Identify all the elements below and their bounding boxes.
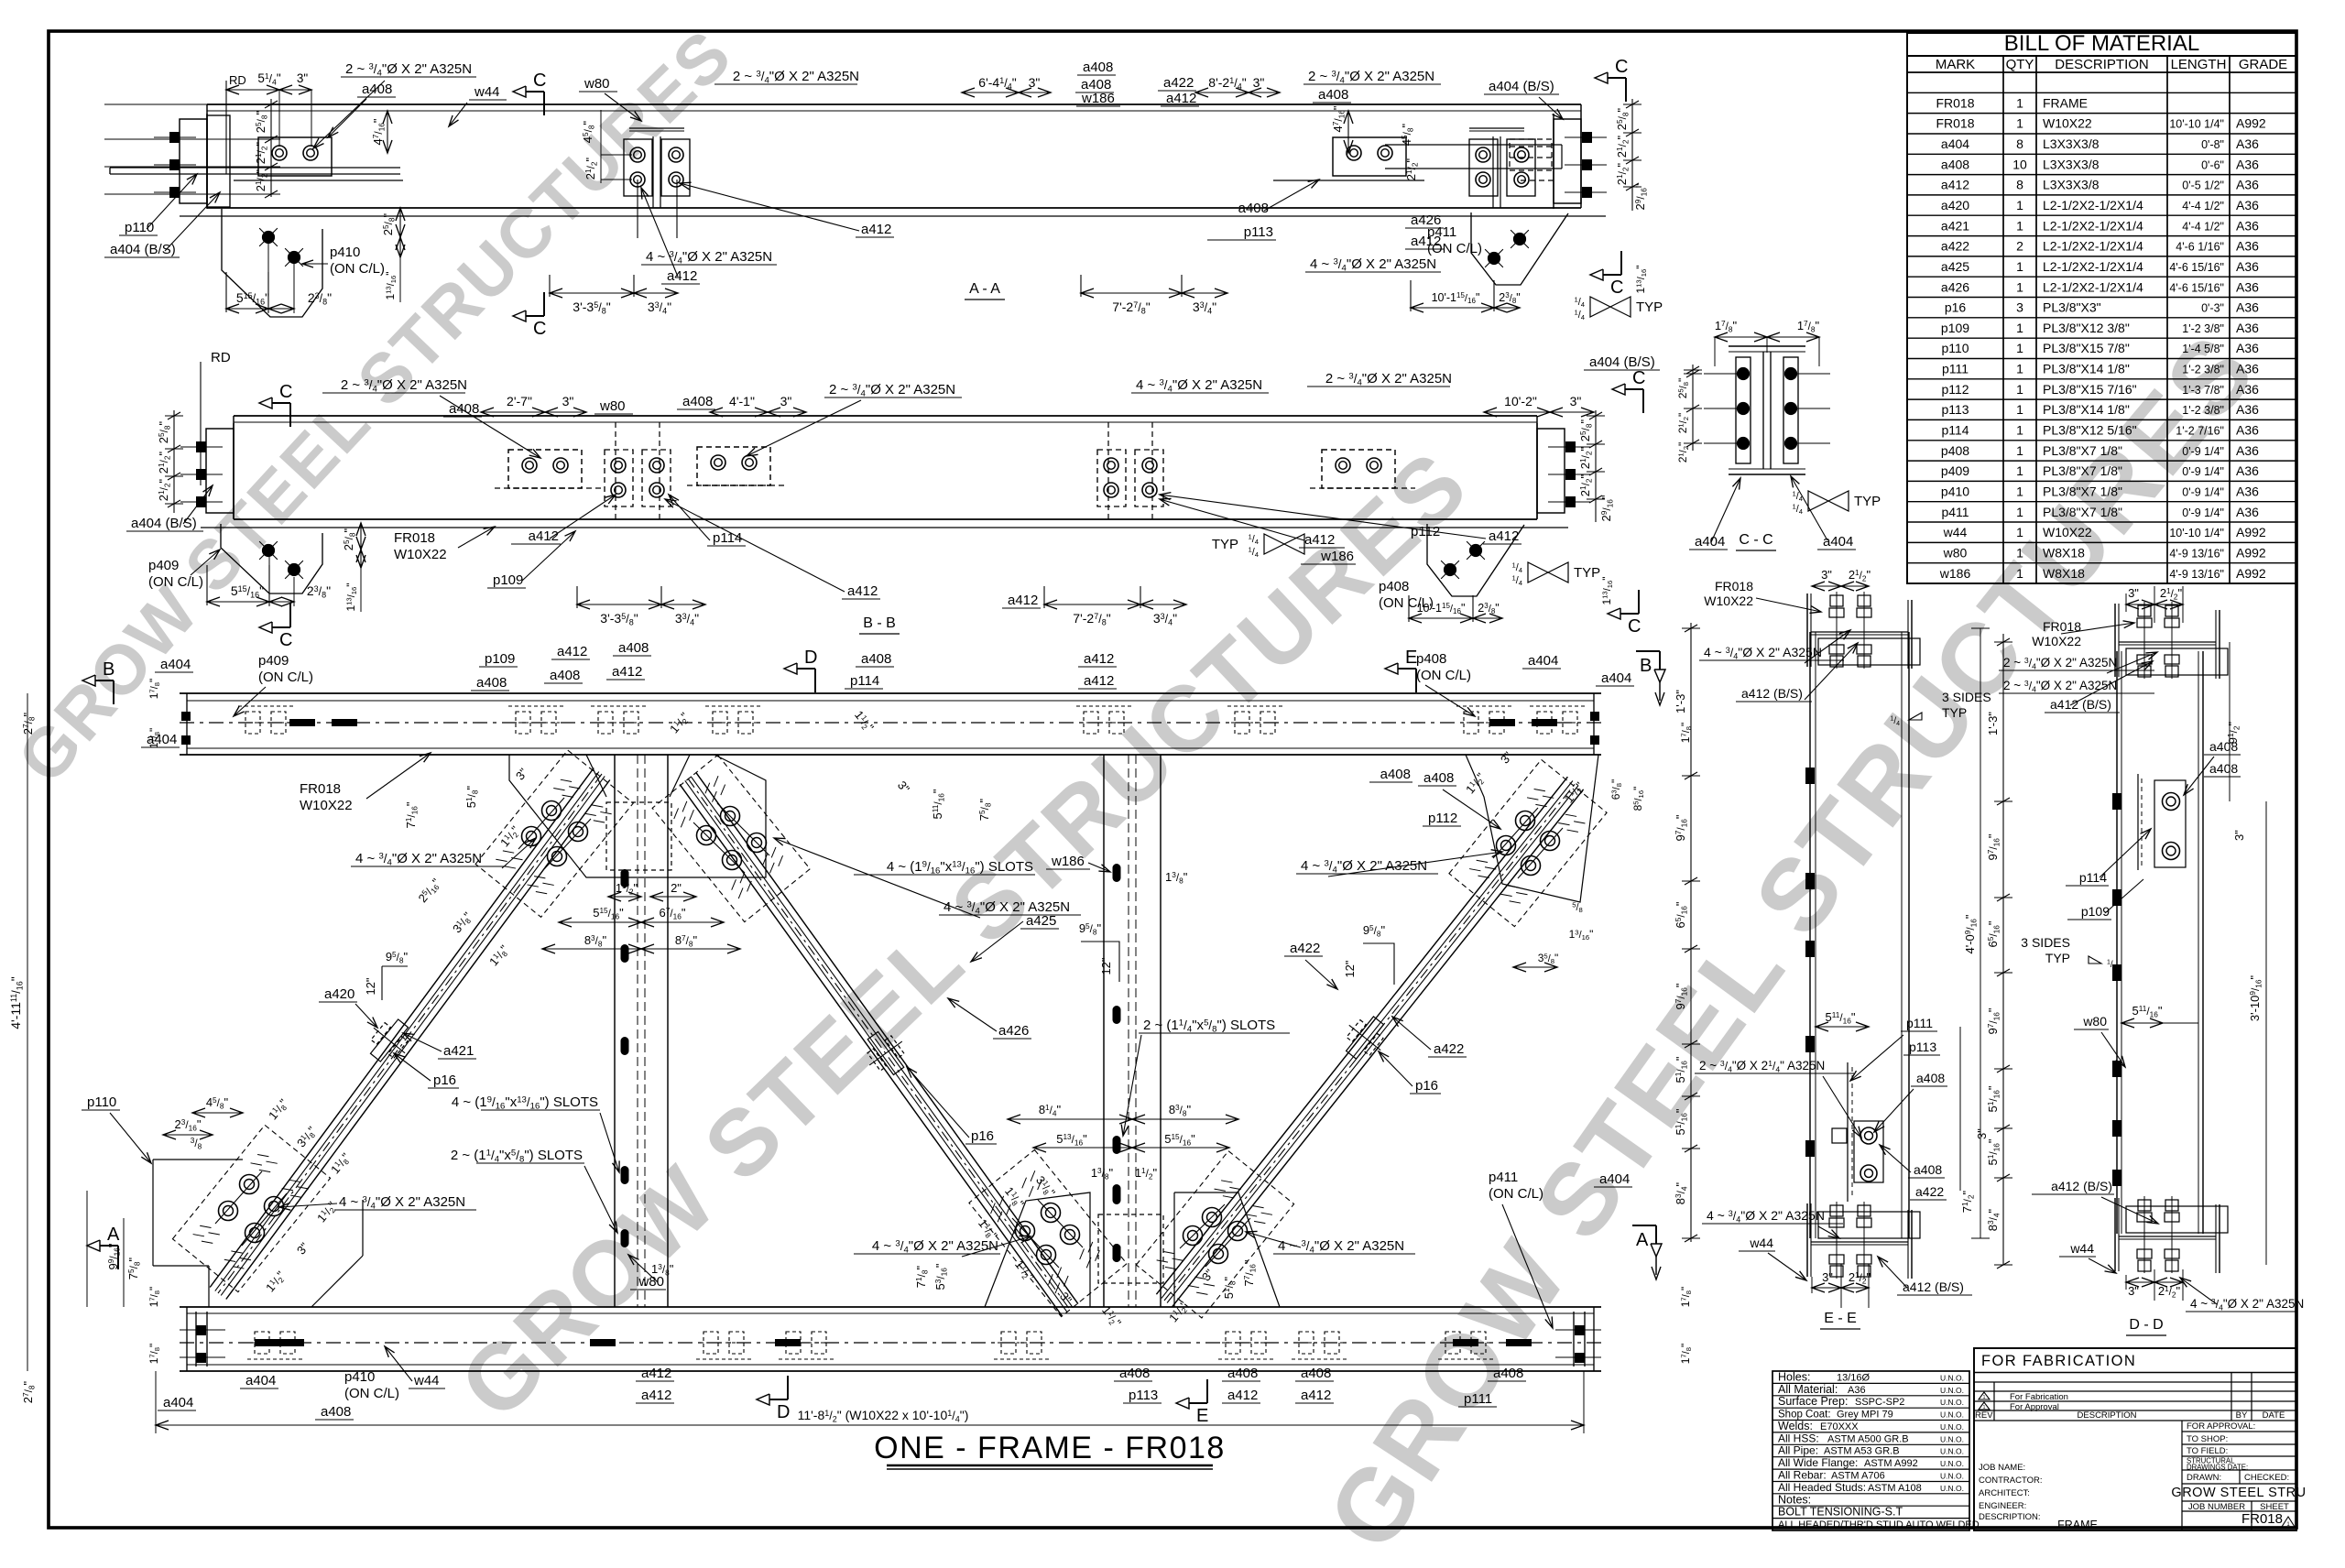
svg-text:w186: w186 xyxy=(1051,854,1085,869)
svg-text:a422: a422 xyxy=(1163,75,1194,91)
svg-text:1: 1 xyxy=(2016,116,2023,131)
svg-text:83/8": 83/8" xyxy=(584,933,607,948)
svg-text:E - E: E - E xyxy=(1824,1311,1857,1326)
gusset p409 below beam left (B-B) xyxy=(221,524,322,593)
svg-text:Surface Prep:: Surface Prep: xyxy=(1778,1395,1848,1408)
svg-text:17/8": 17/8" xyxy=(147,728,161,749)
svg-text:17/8": 17/8" xyxy=(1797,319,1820,333)
svg-text:A992: A992 xyxy=(2236,545,2266,560)
svg-text:p110: p110 xyxy=(125,220,154,235)
svg-text:GRADE: GRADE xyxy=(2239,57,2287,72)
svg-text:p110: p110 xyxy=(1941,341,1969,355)
svg-text:JOB NAME:: JOB NAME: xyxy=(1979,1463,2025,1473)
svg-text:L2-1/2X2-1/2X1/4: L2-1/2X2-1/2X1/4 xyxy=(2043,218,2143,233)
svg-text:ALL HEADED/THR'D STUD AUTO WEL: ALL HEADED/THR'D STUD AUTO WELDED xyxy=(1778,1519,1980,1530)
w80 column profile (E-E) xyxy=(1805,632,1909,1238)
svg-text:0'-9 1/4": 0'-9 1/4" xyxy=(2182,506,2224,519)
mid connection p111 p113 a408 a422 (E-E) xyxy=(1832,1062,1883,1202)
svg-text:PL3/8"X7 1/8": PL3/8"X7 1/8" xyxy=(2043,505,2122,519)
svg-text:W10X22: W10X22 xyxy=(1704,593,1753,608)
svg-text:0'-8": 0'-8" xyxy=(2201,138,2224,151)
angle a422 dashed (A-A right) xyxy=(1510,139,1554,180)
svg-text:FR018: FR018 xyxy=(1715,579,1753,593)
svg-text:A36: A36 xyxy=(2236,341,2259,355)
svg-text:A36: A36 xyxy=(2236,178,2259,192)
svg-text:515/16": 515/16" xyxy=(236,290,269,307)
svg-text:1: 1 xyxy=(2016,505,2023,519)
svg-text:113/16": 113/16" xyxy=(344,583,358,611)
svg-text:4 ~ 3/4"Ø X 2" A325N: 4 ~ 3/4"Ø X 2" A325N xyxy=(1301,858,1427,876)
svg-text:51/16": 51/16" xyxy=(1674,1056,1688,1083)
svg-text:PL3/8"X15 7/16": PL3/8"X15 7/16" xyxy=(2043,382,2137,397)
svg-text:3": 3" xyxy=(1570,394,1582,408)
svg-text:13/8": 13/8" xyxy=(651,1262,674,1277)
svg-text:L2-1/2X2-1/2X1/4: L2-1/2X2-1/2X1/4 xyxy=(2043,279,2143,294)
svg-text:U.N.O.: U.N.O. xyxy=(1940,1373,1964,1382)
svg-text:1'-2 3/8": 1'-2 3/8" xyxy=(2182,322,2224,335)
svg-text:a422: a422 xyxy=(1290,941,1320,956)
svg-text:ASTM A992: ASTM A992 xyxy=(1864,1458,1918,1469)
svg-text:21/2": 21/2" xyxy=(1404,158,1419,180)
svg-text:21/2": 21/2" xyxy=(1578,446,1593,469)
svg-text:p111: p111 xyxy=(1464,1391,1492,1407)
svg-text:p112: p112 xyxy=(1411,524,1440,539)
svg-text:4'-6 15/16": 4'-6 15/16" xyxy=(2169,261,2224,274)
svg-text:a421: a421 xyxy=(443,1043,474,1059)
svg-text:27/8": 27/8" xyxy=(21,712,36,735)
svg-text:L3X3X3/8: L3X3X3/8 xyxy=(2043,178,2100,192)
svg-text:1: 1 xyxy=(2016,362,2023,376)
E-E dimensions and labels xyxy=(1674,568,1991,1329)
svg-text:U.N.O.: U.N.O. xyxy=(1940,1459,1964,1468)
svg-text:a412: a412 xyxy=(1304,532,1335,548)
svg-text:12": 12" xyxy=(364,977,377,995)
svg-text:a408: a408 xyxy=(1318,87,1348,103)
svg-text:w80: w80 xyxy=(2082,1014,2107,1029)
svg-text:95/8": 95/8" xyxy=(1079,921,1102,936)
bill of material table xyxy=(1907,31,2296,583)
svg-text:63/8": 63/8" xyxy=(1609,779,1623,800)
svg-text:p410: p410 xyxy=(330,245,360,260)
svg-text:a408: a408 xyxy=(449,401,479,417)
svg-text:a420: a420 xyxy=(324,986,354,1002)
svg-text:L2-1/2X2-1/2X1/4: L2-1/2X2-1/2X1/4 xyxy=(2043,239,2143,254)
svg-text:w80: w80 xyxy=(599,398,626,414)
svg-text:a412: a412 xyxy=(847,583,878,599)
svg-text:4 ~ 3/4"Ø X 2" A325N: 4 ~ 3/4"Ø X 2" A325N xyxy=(1707,1208,1825,1225)
svg-text:a412: a412 xyxy=(612,664,642,680)
svg-text:a412: a412 xyxy=(1941,178,1969,192)
section B-B view xyxy=(126,350,1660,650)
svg-text:A36: A36 xyxy=(2236,382,2259,397)
svg-text:DRAWINGS DATE:: DRAWINGS DATE: xyxy=(2187,1464,2248,1472)
svg-text:45/8": 45/8" xyxy=(581,120,595,143)
svg-text:33/4": 33/4" xyxy=(675,611,699,627)
svg-text:4'-1": 4'-1" xyxy=(729,394,755,408)
bottom beam w44 xyxy=(180,1307,1601,1371)
svg-text:1: 1 xyxy=(2016,485,2023,499)
bottom beam w44 cross section (D-D) xyxy=(2115,1196,2228,1273)
svg-text:13/16": 13/16" xyxy=(1569,928,1594,942)
svg-text:p409: p409 xyxy=(258,653,289,669)
svg-text:0'-9 1/4": 0'-9 1/4" xyxy=(2182,445,2224,458)
svg-text:23/8": 23/8" xyxy=(307,583,331,600)
section C-C detail xyxy=(1676,319,1881,550)
svg-text:4'-6 15/16": 4'-6 15/16" xyxy=(2169,281,2224,294)
diagonal brace a420 a421 xyxy=(210,768,610,1300)
svg-text:TYP: TYP xyxy=(1574,565,1600,581)
svg-text:TYP: TYP xyxy=(1636,299,1663,315)
C-C dimensions and labels xyxy=(1676,319,1881,550)
svg-text:For Fabrication: For Fabrication xyxy=(2010,1392,2068,1402)
svg-text:DRAWN:: DRAWN: xyxy=(2187,1473,2221,1483)
hidden angle a408 2 bolts right of w80 (B-B) xyxy=(687,447,788,485)
svg-text:w44: w44 xyxy=(1749,1236,1773,1250)
svg-text:23/8": 23/8" xyxy=(308,290,332,307)
svg-text:W10X22: W10X22 xyxy=(394,547,447,562)
svg-text:w44: w44 xyxy=(474,84,500,100)
w80 column profile (D-D) xyxy=(2112,651,2203,1234)
svg-text:BOLT TENSIONING-S.T: BOLT TENSIONING-S.T xyxy=(1778,1506,1903,1519)
section D-D view xyxy=(1986,586,2304,1335)
svg-text:TYP: TYP xyxy=(1942,705,1967,720)
svg-text:DESCRIPTION: DESCRIPTION xyxy=(2055,57,2149,72)
svg-text:a408: a408 xyxy=(1227,1366,1258,1381)
svg-text:0'-5 1/2": 0'-5 1/2" xyxy=(2182,180,2224,192)
svg-text:511/16": 511/16" xyxy=(1826,1010,1856,1025)
svg-text:25/8": 25/8" xyxy=(254,110,268,133)
svg-text:0'-9 1/4": 0'-9 1/4" xyxy=(2182,486,2224,499)
svg-text:1: 1 xyxy=(2016,198,2023,212)
svg-text:3": 3" xyxy=(780,394,792,408)
svg-text:4'-9 13/16": 4'-9 13/16" xyxy=(2169,568,2224,581)
w186 stub and a426 a412 clips (A-A) xyxy=(1469,128,1535,208)
svg-text:SSPC-SP2: SSPC-SP2 xyxy=(1855,1397,1904,1408)
svg-text:11/2": 11/2" xyxy=(1135,1166,1158,1181)
svg-text:4'-9 13/16": 4'-9 13/16" xyxy=(2169,547,2224,560)
svg-text:a408: a408 xyxy=(1941,157,1969,171)
svg-text:p410: p410 xyxy=(344,1369,375,1385)
svg-text:FOR APPROVAL:: FOR APPROVAL: xyxy=(2187,1421,2255,1432)
svg-text:511/16": 511/16" xyxy=(931,789,945,819)
svg-text:p16: p16 xyxy=(1945,300,1967,315)
svg-text:67/16": 67/16" xyxy=(660,906,686,920)
svg-text:A36: A36 xyxy=(2236,157,2259,171)
svg-text:DESCRIPTION:: DESCRIPTION: xyxy=(1979,1512,2041,1522)
svg-text:A36: A36 xyxy=(2236,423,2259,438)
svg-text:RD: RD xyxy=(211,350,231,365)
svg-text:a404 (B/S): a404 (B/S) xyxy=(131,516,197,531)
svg-text:D: D xyxy=(804,648,817,668)
svg-text:a425: a425 xyxy=(1026,913,1056,929)
svg-text:4 ~ 3/4"Ø X 2" A325N: 4 ~ 3/4"Ø X 2" A325N xyxy=(1704,645,1822,661)
svg-text:A36: A36 xyxy=(2236,136,2259,151)
section C markers (B-B) xyxy=(259,368,1645,650)
svg-text:MARK: MARK xyxy=(1936,57,1975,72)
svg-text:(ON C/L): (ON C/L) xyxy=(258,670,313,685)
svg-text:p409: p409 xyxy=(148,558,179,573)
angle a408 with 2 bolts (A-A left) xyxy=(234,137,403,180)
diagonal brace a425 a426 xyxy=(680,773,1078,1316)
svg-text:515/16": 515/16" xyxy=(593,906,624,920)
svg-text:4 ~ 3/4"Ø X 2" A325N: 4 ~ 3/4"Ø X 2" A325N xyxy=(2190,1297,2304,1312)
svg-text:RD: RD xyxy=(229,73,246,87)
svg-text:2 ~ (11/4"x5/8") SLOTS: 2 ~ (11/4"x5/8") SLOTS xyxy=(451,1148,583,1165)
svg-text:21/2": 21/2" xyxy=(2160,586,2183,601)
svg-text:23/8": 23/8" xyxy=(1499,291,1520,305)
svg-text:4 ~ 3/4"Ø X 2" A325N: 4 ~ 3/4"Ø X 2" A325N xyxy=(1136,377,1262,395)
right vertical member w186 xyxy=(1104,755,1161,1307)
svg-text:TYP: TYP xyxy=(1212,537,1238,552)
svg-text:2": 2" xyxy=(671,881,682,895)
svg-text:w186: w186 xyxy=(1320,549,1354,564)
svg-text:10'-10 1/4": 10'-10 1/4" xyxy=(2169,527,2224,539)
svg-text:a412: a412 xyxy=(667,268,697,284)
svg-text:4'-6 1/16": 4'-6 1/16" xyxy=(2176,241,2224,254)
svg-text:17/8": 17/8" xyxy=(1679,1344,1693,1365)
svg-text:21/2": 21/2" xyxy=(1676,442,1690,463)
svg-text:21/2": 21/2" xyxy=(254,141,268,164)
svg-text:a404: a404 xyxy=(1599,1171,1630,1187)
top beam clip plates a408 a412 (dashed) xyxy=(238,706,1585,734)
svg-text:21/2": 21/2" xyxy=(584,157,598,180)
svg-text:25/8": 25/8" xyxy=(342,528,356,550)
svg-text:a421: a421 xyxy=(1941,218,1969,233)
svg-text:A36: A36 xyxy=(2236,362,2259,376)
svg-text:21/2": 21/2" xyxy=(1615,162,1630,185)
svg-text:81/4": 81/4" xyxy=(1039,1103,1062,1117)
svg-text:1'-3 7/8": 1'-3 7/8" xyxy=(2182,384,2224,397)
svg-text:C: C xyxy=(533,71,546,91)
svg-text:a422: a422 xyxy=(1434,1041,1464,1057)
svg-text:a408: a408 xyxy=(321,1404,351,1420)
bottom left gusset p110 xyxy=(153,1125,363,1307)
svg-text:a412: a412 xyxy=(1301,1388,1331,1403)
svg-text:p408: p408 xyxy=(1379,579,1409,594)
svg-text:4 ~ 3/4"Ø X 2" A325N: 4 ~ 3/4"Ø X 2" A325N xyxy=(1310,256,1436,274)
svg-text:p113: p113 xyxy=(1129,1388,1158,1403)
gusset p408 below beam right (B-B) xyxy=(1427,524,1524,596)
svg-text:4'-4 1/2": 4'-4 1/2" xyxy=(2182,200,2224,212)
svg-text:TYP: TYP xyxy=(2045,951,2070,965)
drawing title ONE - FRAME - FR018 xyxy=(874,1431,1226,1469)
svg-text:1: 1 xyxy=(2016,259,2023,274)
svg-text:BY: BY xyxy=(2236,1410,2248,1421)
svg-text:FRAME: FRAME xyxy=(2043,95,2088,110)
svg-text:51/16": 51/16" xyxy=(1986,1138,2001,1165)
svg-text:PL3/8"X14 1/8": PL3/8"X14 1/8" xyxy=(2043,362,2130,376)
svg-text:w80: w80 xyxy=(584,76,610,92)
svg-text:D - D: D - D xyxy=(2129,1317,2163,1333)
svg-text:a408: a408 xyxy=(1916,1071,1945,1085)
svg-text:a412: a412 xyxy=(1084,673,1114,689)
svg-text:1: 1 xyxy=(2016,341,2023,355)
svg-text:W10X22: W10X22 xyxy=(300,798,353,813)
svg-text:TO FIELD:: TO FIELD: xyxy=(2187,1446,2228,1456)
svg-text:For Approval: For Approval xyxy=(2010,1402,2059,1412)
svg-text:21/2": 21/2" xyxy=(157,478,171,501)
svg-text:1: 1 xyxy=(1983,1395,1986,1400)
svg-text:Notes:: Notes: xyxy=(1778,1493,1811,1506)
svg-text:GROW STEEL STRU: GROW STEEL STRU xyxy=(2171,1486,2306,1500)
svg-text:E: E xyxy=(1196,1406,1208,1426)
svg-text:21/2": 21/2" xyxy=(1849,1270,1871,1285)
svg-text:W10X22: W10X22 xyxy=(2043,525,2092,539)
svg-text:3": 3" xyxy=(562,394,574,408)
svg-text:All Headed Studs:: All Headed Studs: xyxy=(1778,1481,1866,1494)
svg-text:17/8": 17/8" xyxy=(147,1344,161,1365)
svg-text:a404: a404 xyxy=(160,657,191,672)
svg-text:a412 (B/S): a412 (B/S) xyxy=(1741,686,1803,701)
D-D dimensions and labels xyxy=(1986,586,2304,1335)
svg-text:21/2": 21/2" xyxy=(1578,474,1593,496)
svg-text:LENGTH: LENGTH xyxy=(2171,57,2227,72)
svg-text:a408: a408 xyxy=(682,394,713,409)
svg-text:FR018: FR018 xyxy=(1936,95,1974,110)
svg-text:2 ~ 3/4"Ø X 21/4" A325N: 2 ~ 3/4"Ø X 21/4" A325N xyxy=(1699,1059,1825,1073)
left vertical member w80 xyxy=(615,755,668,1307)
svg-text:C: C xyxy=(279,382,292,402)
svg-text:1: 1 xyxy=(2016,279,2023,294)
title block xyxy=(1974,1348,2307,1531)
svg-text:p408: p408 xyxy=(1416,651,1446,667)
svg-text:17/8": 17/8" xyxy=(147,679,161,700)
bottom beam clip plates (dashed) xyxy=(247,1332,1493,1359)
svg-text:3": 3" xyxy=(1822,1270,1833,1284)
svg-text:10'-2": 10'-2" xyxy=(1504,394,1537,408)
svg-text:2 ~ 3/4"Ø X 2" A325N: 2 ~ 3/4"Ø X 2" A325N xyxy=(1325,371,1452,388)
svg-text:PL3/8"X15 7/8": PL3/8"X15 7/8" xyxy=(2043,341,2130,355)
svg-text:97/16": 97/16" xyxy=(1674,983,1688,1009)
svg-text:U.N.O.: U.N.O. xyxy=(1940,1410,1964,1420)
svg-text:97/16": 97/16" xyxy=(1674,814,1688,841)
svg-text:17/8": 17/8" xyxy=(1679,1287,1693,1308)
svg-text:p16: p16 xyxy=(1415,1078,1438,1094)
svg-text:a404 (B/S): a404 (B/S) xyxy=(1589,354,1655,370)
svg-text:11'-81/2" (W10X22 x 10'-101/4": 11'-81/2" (W10X22 x 10'-101/4") xyxy=(798,1408,969,1424)
svg-text:a412: a412 xyxy=(1489,528,1519,544)
svg-text:FR018: FR018 xyxy=(1936,116,1974,131)
svg-text:p114: p114 xyxy=(1941,423,1969,438)
diagonal brace a422 xyxy=(1156,777,1583,1307)
svg-text:JOB NUMBER: JOB NUMBER xyxy=(2188,1502,2245,1512)
svg-text:71/8": 71/8" xyxy=(914,1265,929,1288)
a408 clip with 2 bolts (D-D) xyxy=(2138,774,2186,870)
left end plate p110 and angle a404 (A-A) xyxy=(110,114,400,209)
svg-text:2 ~ (11/4"x5/8") SLOTS: 2 ~ (11/4"x5/8") SLOTS xyxy=(1143,1018,1275,1035)
svg-text:13/8": 13/8" xyxy=(1165,870,1188,885)
svg-text:1: 1 xyxy=(2016,382,2023,397)
svg-text:a408: a408 xyxy=(1119,1366,1150,1381)
svg-text:a408: a408 xyxy=(1914,1162,1942,1177)
frame section markers xyxy=(82,648,1665,1426)
svg-text:95/8": 95/8" xyxy=(386,950,409,964)
general notes table xyxy=(1772,1370,1980,1530)
svg-text:U.N.O.: U.N.O. xyxy=(1940,1447,1964,1456)
svg-text:a404: a404 xyxy=(163,1395,193,1410)
svg-text:p409: p409 xyxy=(1941,463,1969,478)
svg-text:2 ~ 3/4"Ø X 2" A325N: 2 ~ 3/4"Ø X 2" A325N xyxy=(1308,69,1434,86)
svg-text:25/8": 25/8" xyxy=(1615,107,1630,130)
svg-text:65/16": 65/16" xyxy=(1986,920,2001,947)
svg-text:1'-3": 1'-3" xyxy=(1986,712,2000,735)
svg-text:a404 (B/S): a404 (B/S) xyxy=(1489,79,1554,94)
svg-text:3": 3" xyxy=(1253,75,1265,90)
svg-text:a412: a412 xyxy=(1008,593,1038,608)
svg-text:25/8": 25/8" xyxy=(1578,419,1593,441)
top center gusset p109 p114 and bolts xyxy=(475,750,810,922)
svg-text:23/8": 23/8" xyxy=(1478,602,1499,615)
svg-text:a408: a408 xyxy=(1083,60,1113,75)
svg-text:A36: A36 xyxy=(2236,402,2259,417)
svg-text:L2-1/2X2-1/2X1/4: L2-1/2X2-1/2X1/4 xyxy=(2043,259,2143,274)
svg-text:p113: p113 xyxy=(1941,402,1969,417)
svg-text:a408: a408 xyxy=(476,675,507,691)
svg-text:a408: a408 xyxy=(1380,767,1411,782)
svg-text:C: C xyxy=(1615,57,1628,77)
bottom beam w44 cross section (E-E) xyxy=(1807,1202,1920,1279)
svg-text:A36: A36 xyxy=(2236,485,2259,499)
svg-text:A36: A36 xyxy=(2236,300,2259,315)
svg-text:C: C xyxy=(1610,278,1623,298)
svg-text:p113: p113 xyxy=(1244,224,1273,240)
svg-text:A36: A36 xyxy=(1848,1385,1866,1396)
svg-text:51/16": 51/16" xyxy=(1674,1108,1688,1135)
svg-text:FRAME: FRAME xyxy=(2057,1519,2098,1531)
svg-text:ASTM A706: ASTM A706 xyxy=(1831,1471,1885,1482)
svg-text:A36: A36 xyxy=(2236,259,2259,274)
svg-text:PL3/8"X12 5/16": PL3/8"X12 5/16" xyxy=(2043,423,2137,438)
svg-text:3 SIDES: 3 SIDES xyxy=(1942,690,1991,704)
svg-text:3: 3 xyxy=(2016,300,2023,315)
svg-text:23/16": 23/16" xyxy=(175,1117,202,1132)
splice plate p16 on a420 xyxy=(360,1011,419,1071)
svg-text:51/16": 51/16" xyxy=(1986,1085,2001,1112)
svg-text:(ON C/L): (ON C/L) xyxy=(148,574,203,590)
svg-text:a408: a408 xyxy=(1493,1366,1523,1381)
svg-text:w44: w44 xyxy=(1943,525,1968,539)
svg-text:53/16": 53/16" xyxy=(933,1263,948,1290)
gusset p410 below beam (A-A) xyxy=(222,209,322,317)
svg-text:p111: p111 xyxy=(1906,1016,1933,1030)
svg-text:513/16": 513/16" xyxy=(1056,1132,1087,1147)
svg-text:515/16": 515/16" xyxy=(231,583,264,600)
svg-text:FR018: FR018 xyxy=(2241,1511,2283,1527)
svg-text:p408: p408 xyxy=(1941,443,1969,458)
svg-text:2'-7": 2'-7" xyxy=(507,394,532,408)
svg-text:U.N.O.: U.N.O. xyxy=(1940,1398,1964,1407)
svg-text:(ON C/L): (ON C/L) xyxy=(1489,1186,1543,1202)
section C markers (A-A) xyxy=(513,57,1628,339)
svg-text:p410: p410 xyxy=(1941,485,1969,499)
svg-text:BILL OF MATERIAL: BILL OF MATERIAL xyxy=(2004,31,2199,56)
top beam FR018 cross section (D-D) xyxy=(2115,602,2228,679)
svg-text:A36: A36 xyxy=(2236,321,2259,335)
svg-text:FOR FABRICATION: FOR FABRICATION xyxy=(1981,1353,2136,1369)
svg-text:3 SIDES: 3 SIDES xyxy=(2021,935,2070,950)
svg-text:W8X18: W8X18 xyxy=(2043,566,2085,581)
svg-text:1: 1 xyxy=(2016,423,2023,438)
svg-text:p114: p114 xyxy=(850,673,879,689)
svg-text:0'-6": 0'-6" xyxy=(2201,158,2224,171)
svg-text:21/2": 21/2" xyxy=(1676,413,1690,434)
svg-text:17/8": 17/8" xyxy=(1715,319,1738,333)
svg-text:2 ~ 3/4"Ø X 2" A325N: 2 ~ 3/4"Ø X 2" A325N xyxy=(341,377,467,395)
svg-text:(ON C/L): (ON C/L) xyxy=(330,261,385,277)
svg-text:1: 1 xyxy=(2016,545,2023,560)
svg-text:p16: p16 xyxy=(433,1073,456,1088)
svg-text:51/8": 51/8" xyxy=(1222,1276,1237,1299)
